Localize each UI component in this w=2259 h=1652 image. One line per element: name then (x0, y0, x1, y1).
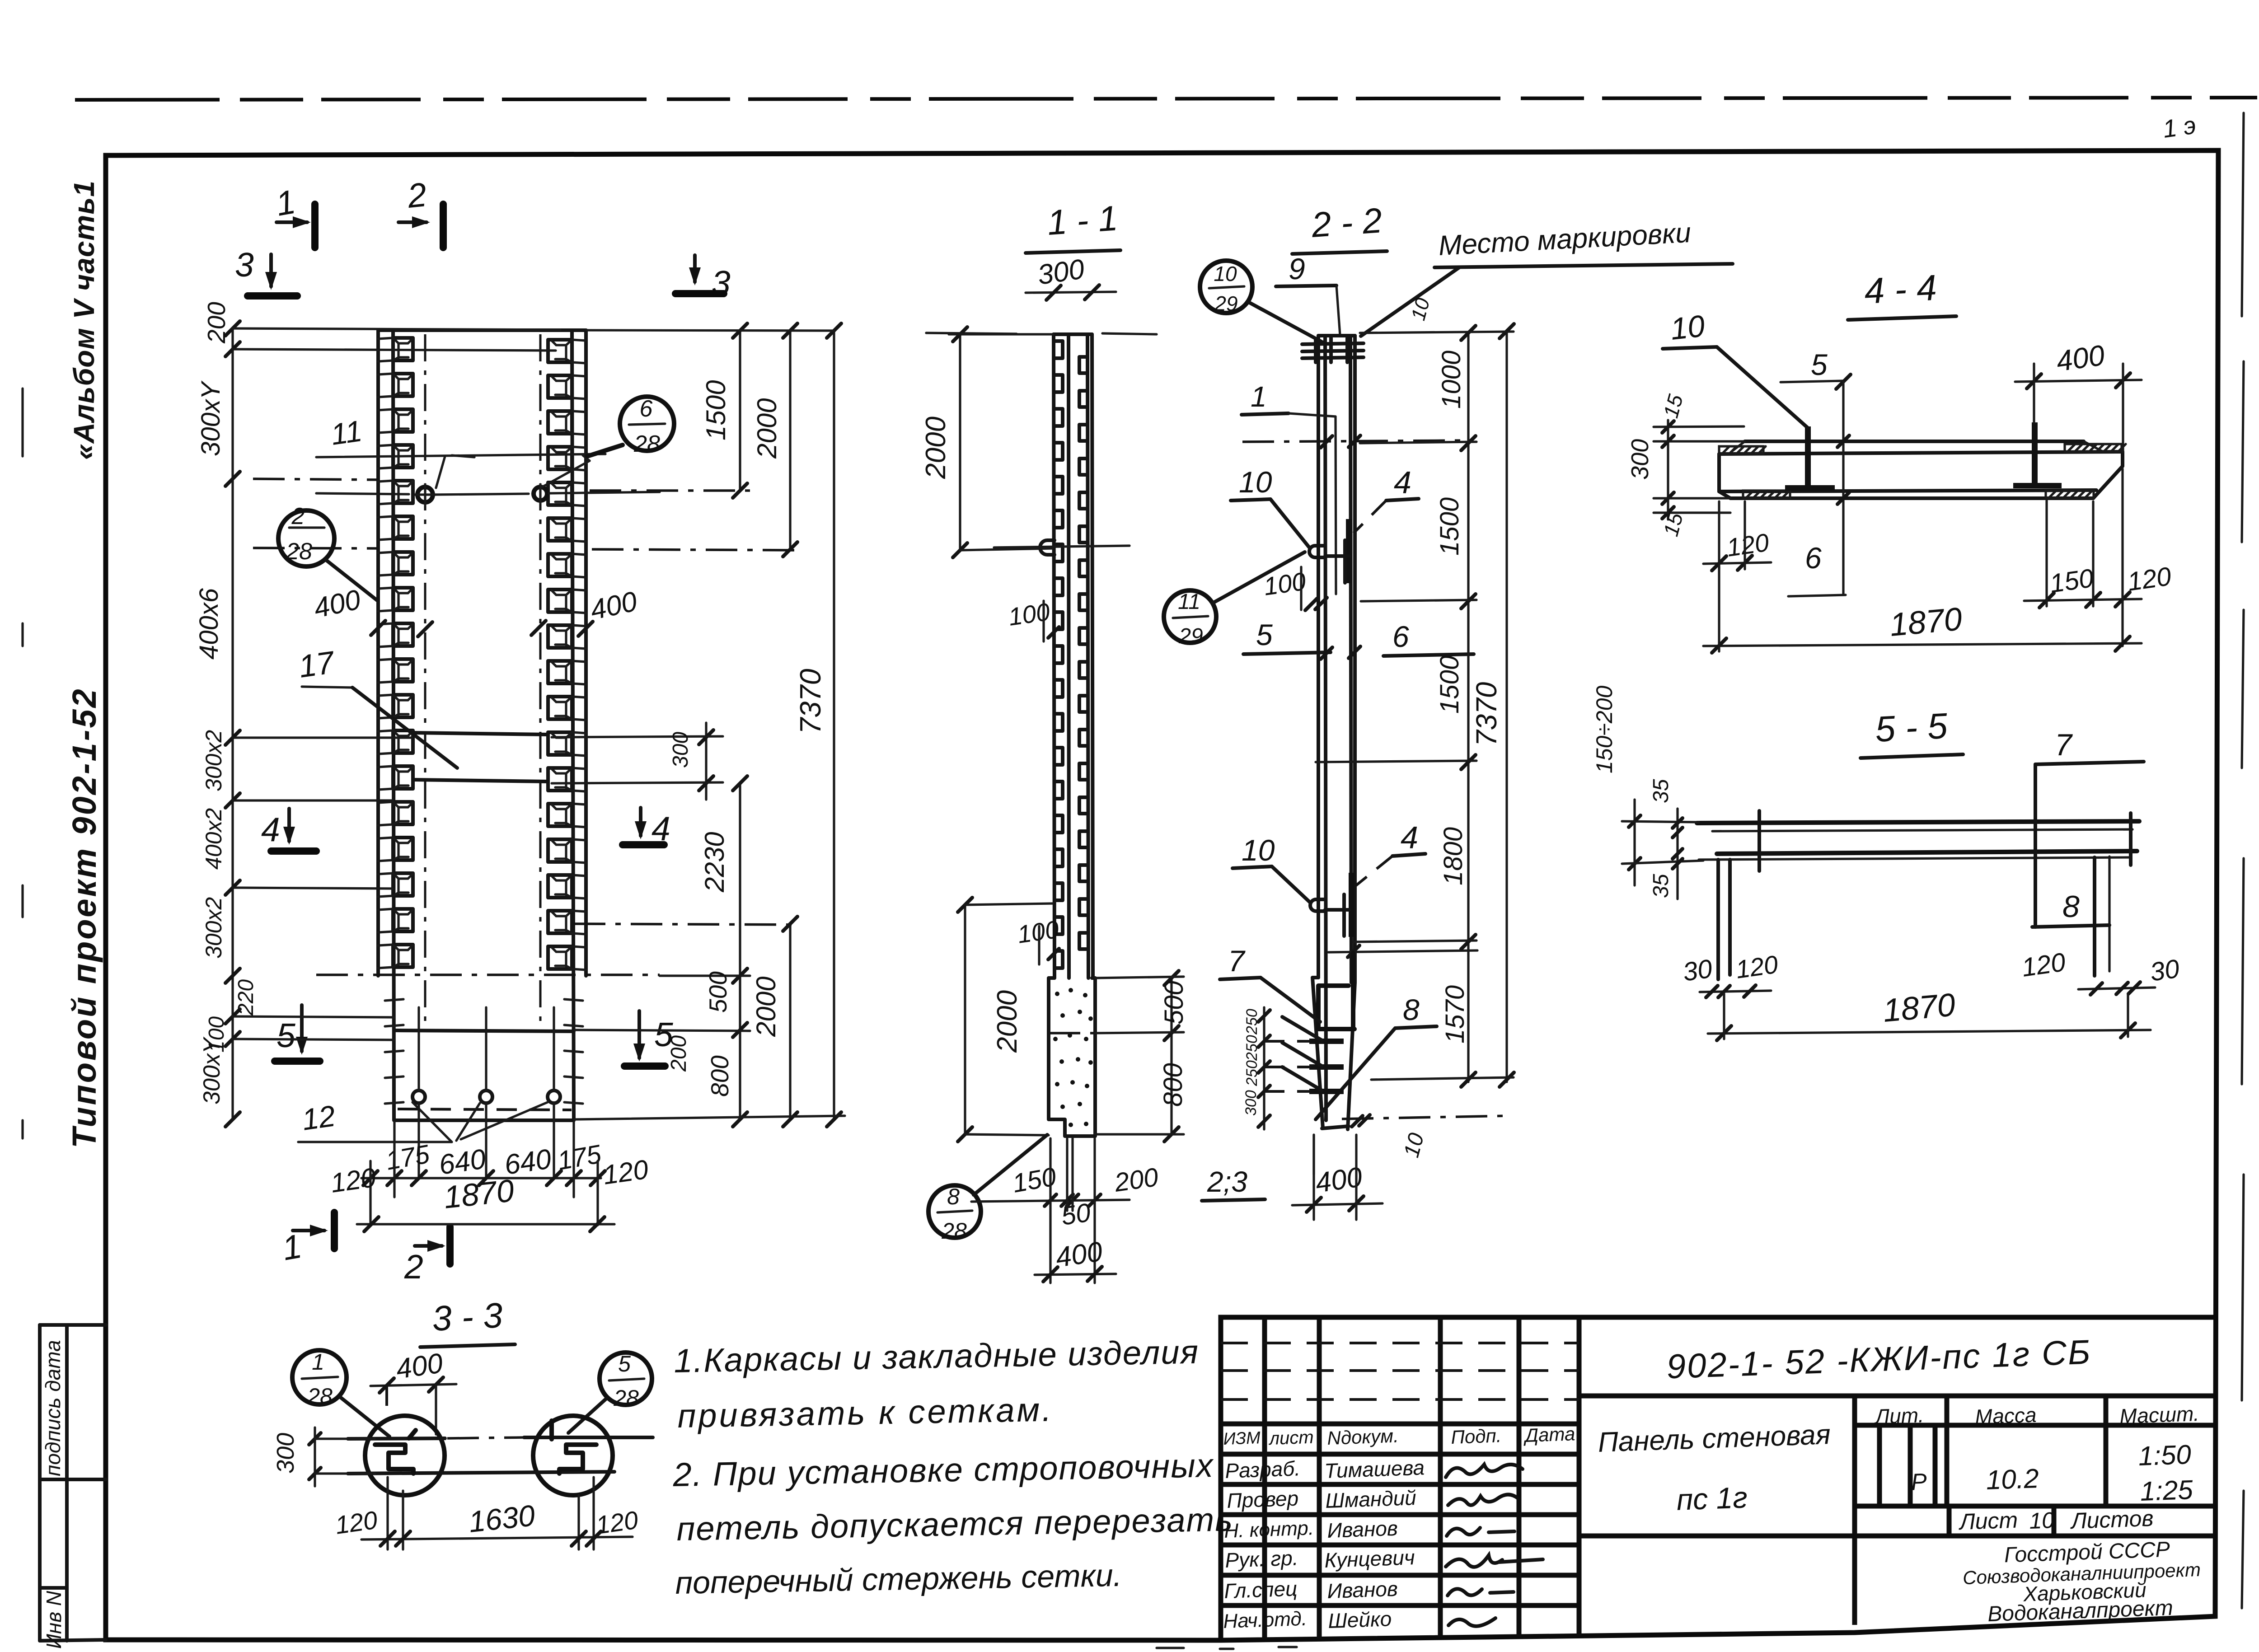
svg-text:640: 640 (437, 1143, 487, 1181)
svg-text:1:25: 1:25 (2140, 1474, 2194, 1507)
svg-text:«Альбом V часть1: «Альбом V часть1 (68, 180, 100, 460)
svg-text:4 - 4: 4 - 4 (1863, 267, 1938, 311)
bent bar 7 in foot (1220, 944, 1354, 1029)
label 2;3 bottom (1202, 1135, 1314, 1201)
svg-text:пс 1г: пс 1г (1676, 1480, 1748, 1516)
bottom dashed line of panel (398, 1109, 572, 1110)
svg-text:1630: 1630 (467, 1498, 537, 1539)
svg-text:2: 2 (291, 503, 305, 529)
right chains of front view (253, 323, 845, 1127)
section 1-1 body (1054, 334, 1093, 978)
callout circle 11/29 (1164, 552, 1305, 648)
svg-text:Инв N: Инв N (42, 1591, 66, 1649)
section 1-1 bottom block (1049, 978, 1095, 1136)
paper edge artifact right (2242, 113, 2244, 1608)
callout circle 8/28 (928, 1135, 1047, 1244)
left margin binding boxes (40, 1325, 106, 1641)
svg-text:11: 11 (1178, 590, 1200, 614)
foot left chain 250-250-250-300 (1242, 1007, 1310, 1129)
svg-text:30: 30 (1681, 954, 1714, 987)
label 12 with leaders (298, 1099, 548, 1142)
svg-text:29: 29 (1178, 624, 1203, 648)
front view edge tick marks lower part (385, 999, 583, 1104)
section 1-1 top extension lines (926, 333, 1157, 334)
section 5-5 bottom chord pair (1699, 851, 2137, 860)
svg-text:35: 35 (1649, 874, 1673, 898)
section 4-4 bottom dims 150-120 right (2024, 469, 2173, 646)
svg-text:10: 10 (2029, 1507, 2055, 1534)
section 4-4 slab body (1719, 441, 2123, 498)
svg-text:120: 120 (2020, 947, 2067, 983)
front view bottom total 1870 (357, 1173, 614, 1231)
svg-text:300: 300 (669, 732, 693, 768)
lifting loop 11 right (534, 484, 547, 503)
svg-text:5: 5 (1256, 618, 1273, 651)
3-3 dim 300 left (272, 1427, 375, 1486)
svg-text:35: 35 (1649, 779, 1673, 803)
svg-text:2000: 2000 (992, 990, 1023, 1053)
svg-text:10.2: 10.2 (1986, 1463, 2039, 1495)
right chain labels of 2-2 (1407, 295, 1503, 1044)
svg-text:250: 250 (1243, 1060, 1261, 1086)
svg-text:8: 8 (947, 1184, 960, 1209)
3-3 detail circle right (533, 1416, 613, 1495)
section mark 3 right (675, 255, 731, 302)
svg-text:3: 3 (235, 246, 254, 284)
svg-text:800: 800 (706, 1055, 734, 1097)
svg-text:300x2: 300x2 (201, 897, 226, 959)
svg-text:400: 400 (394, 1348, 445, 1385)
title block person names col (1324, 1455, 1425, 1633)
svg-text:28: 28 (613, 1385, 639, 1411)
section 4-4 dim 5-6 (1781, 348, 1851, 596)
section 1-1 bottom total 400 (1035, 1236, 1116, 1282)
svg-text:200: 200 (1112, 1162, 1160, 1198)
dashdot level line upper (253, 479, 378, 480)
svg-text:1 э: 1 э (2161, 111, 2198, 143)
svg-text:400x6: 400x6 (194, 588, 224, 660)
section 4-4 left dims 15-300-15 (1626, 392, 1745, 538)
svg-text:200: 200 (667, 1035, 691, 1072)
svg-text:12: 12 (300, 1099, 337, 1136)
svg-text:1:50: 1:50 (2138, 1439, 2192, 1471)
svg-text:8: 8 (2062, 889, 2080, 924)
3-3 key profile left (375, 1430, 416, 1474)
section 2-2 top marking embed (1302, 338, 1364, 362)
svg-text:2000: 2000 (751, 977, 781, 1037)
svg-text:28: 28 (633, 431, 660, 457)
svg-text:5: 5 (1811, 348, 1828, 381)
svg-text:4: 4 (1394, 465, 1411, 500)
section 5-5 top chord pair (1697, 821, 2139, 831)
label 400 right with ticks (531, 586, 640, 636)
front view panel outline (378, 330, 586, 1120)
svg-text:Провер: Провер (1227, 1486, 1299, 1512)
section 1-1 title (1026, 198, 1120, 253)
lifting loop 11 left (415, 484, 436, 505)
right chain of 2-2 (1316, 324, 1514, 1087)
loops centerline (316, 492, 660, 495)
svg-text:7: 7 (1228, 944, 1246, 978)
svg-text:2000: 2000 (752, 398, 782, 459)
svg-text:29: 29 (1214, 292, 1237, 315)
level tick 1800 on 2-2 (1328, 945, 1477, 957)
svg-text:6: 6 (640, 396, 653, 422)
label 400 left with ticks (311, 584, 432, 636)
svg-text:120: 120 (2126, 562, 2173, 597)
svg-text:Типовой проект 902-1-52: Типовой проект 902-1-52 (66, 687, 103, 1148)
title block role names col (1223, 1456, 1314, 1633)
svg-text:1: 1 (312, 1349, 324, 1375)
lit massa masshtab header (1855, 1396, 2215, 1506)
svg-text:1800: 1800 (1439, 827, 1468, 885)
3-3 dim 400 top (370, 1348, 456, 1434)
section 1-1 right 500-800 chain (1095, 971, 1189, 1142)
svg-text:120: 120 (601, 1154, 650, 1190)
section mark 4 right (623, 808, 670, 847)
svg-text:Листов: Листов (2069, 1506, 2154, 1534)
section 5-5 cross bars (1718, 811, 2131, 979)
section mark 2 top (398, 175, 443, 248)
svg-text:6: 6 (1392, 620, 1409, 653)
svg-text:4: 4 (1401, 820, 1418, 855)
svg-text:1500: 1500 (1435, 655, 1464, 714)
svg-text:250: 250 (1243, 1035, 1261, 1061)
section 5-5 title (1861, 706, 1963, 758)
section 4-4 weld plate hatches (1719, 444, 2126, 498)
callout circle 2/28 (278, 503, 378, 601)
svg-text:3 - 3: 3 - 3 (431, 1295, 503, 1338)
svg-text:220: 220 (234, 979, 258, 1016)
svg-text:4: 4 (261, 810, 280, 848)
svg-text:Рук. гр.: Рук. гр. (1225, 1546, 1299, 1572)
label 10 bottom gap (1342, 1115, 1509, 1160)
section mark 1 top (273, 183, 315, 248)
svg-text:1870: 1870 (442, 1173, 516, 1215)
svg-text:17: 17 (296, 644, 337, 684)
svg-text:7: 7 (2055, 728, 2073, 762)
section mark 3 left (235, 246, 297, 296)
title block outer frame (1221, 1317, 2215, 1640)
hook 10 upper (1231, 465, 1349, 583)
svg-text:Подп.: Подп. (1451, 1425, 1502, 1448)
svg-text:привязать к сеткам.: привязать к сеткам. (677, 1390, 1054, 1435)
svg-text:7370: 7370 (794, 669, 827, 734)
hook 10 lower (1233, 833, 1349, 936)
svg-text:1 - 1: 1 - 1 (1046, 198, 1119, 243)
svg-text:1870: 1870 (1881, 987, 1957, 1029)
svg-text:300: 300 (1242, 1090, 1260, 1116)
foot anchor bars (1282, 1017, 1344, 1094)
svg-text:1: 1 (1251, 380, 1267, 413)
svg-text:Гл.спец: Гл.спец (1224, 1577, 1298, 1603)
3-3 panel lines (348, 1437, 653, 1474)
section 4-4 embed T left (1785, 426, 1835, 491)
front view centerline left loop column (424, 334, 426, 1032)
section 5-5 left dims (1592, 686, 1703, 899)
front view centerline right loop column (539, 334, 542, 1032)
svg-text:8: 8 (1403, 993, 1420, 1026)
section 1-1 left edge keys (1055, 341, 1063, 968)
svg-text:400x2: 400x2 (201, 808, 226, 870)
front view beam 17 band (413, 733, 548, 782)
section 4-4 dim 400 top right (2015, 339, 2142, 452)
section 2-2 title (1292, 200, 1387, 254)
label 1 with leader (1242, 380, 1336, 594)
svg-text:28: 28 (307, 1384, 333, 1409)
svg-text:1870: 1870 (1888, 601, 1964, 643)
section 4-4 total 1870 (1703, 567, 2142, 653)
svg-text:1500: 1500 (1435, 497, 1464, 556)
svg-text:Дата: Дата (1523, 1423, 1575, 1446)
svg-text:100: 100 (1007, 598, 1052, 631)
bottom 400 dim of 2-2 (1292, 1135, 1383, 1220)
label 17 with leader (296, 644, 457, 768)
organization cell (1962, 1538, 2201, 1627)
list row (1855, 1506, 2215, 1536)
svg-text:30: 30 (2148, 954, 2181, 987)
section 4-4 embed T right (2013, 422, 2062, 488)
label Mesto markirovki (1361, 217, 1733, 336)
svg-text:2;3: 2;3 (1207, 1165, 1247, 1198)
svg-text:250: 250 (1243, 1009, 1261, 1035)
svg-text:Н. контр.: Н. контр. (1224, 1517, 1314, 1542)
svg-text:300x2: 300x2 (201, 730, 226, 791)
section 5-5 bent bar 7-8 bracket (2032, 728, 2144, 927)
svg-text:28: 28 (941, 1218, 967, 1244)
svg-text:лист: лист (1268, 1427, 1314, 1449)
front view bottom 120 labels (328, 1154, 650, 1198)
svg-text:10: 10 (1239, 465, 1272, 499)
svg-text:2000: 2000 (920, 417, 951, 479)
bottom fold marks (1157, 1647, 1297, 1649)
left dim chain of front view (225, 321, 560, 1127)
svg-text:6: 6 (1805, 541, 1822, 575)
svg-text:5: 5 (618, 1351, 631, 1376)
svg-text:300: 300 (1626, 439, 1654, 480)
svg-text:120: 120 (594, 1505, 640, 1539)
svg-text:Лист: Лист (1958, 1507, 2018, 1535)
left chain labels (194, 302, 258, 1104)
signatures (1446, 1465, 1543, 1626)
svg-text:2 - 2: 2 - 2 (1310, 200, 1383, 245)
embed bar 4 upper (1346, 465, 1419, 583)
svg-text:800: 800 (1158, 1063, 1188, 1107)
embed bar 4 lower (1349, 820, 1425, 937)
svg-text:5 - 5: 5 - 5 (1874, 706, 1949, 749)
title block doc number header (1579, 1333, 2215, 1396)
3-3 detail circle left (365, 1416, 445, 1495)
svg-text:Разраб.: Разраб. (1225, 1456, 1301, 1483)
label 8 with leader (1316, 993, 1437, 1119)
section 1-1 right edge keys (1079, 357, 1086, 949)
svg-text:400: 400 (1054, 1236, 1104, 1273)
svg-text:ИЗМ: ИЗМ (1223, 1428, 1261, 1449)
section 1-1 width dim 300 (1026, 253, 1116, 300)
svg-text:1500: 1500 (701, 380, 731, 440)
svg-text:Кунцевич: Кунцевич (1324, 1545, 1415, 1572)
front view mid line 2281 (395, 1030, 574, 1031)
section 4-4 label 10 (1663, 309, 1807, 427)
title block left table verticals (1265, 1317, 1579, 1640)
svg-text:5: 5 (277, 1016, 295, 1054)
svg-text:9: 9 (1289, 252, 1305, 285)
massa and scale values (1986, 1439, 2194, 1507)
section 5-5 total 1870 (1708, 987, 2151, 1040)
section 3-3 title (420, 1295, 515, 1347)
svg-text:300: 300 (272, 1433, 299, 1474)
svg-text:500: 500 (704, 971, 732, 1013)
section mark 4 left (261, 809, 316, 851)
svg-text:120: 120 (1734, 950, 1780, 983)
front view key-zone end dashdot (316, 973, 660, 976)
svg-text:10: 10 (1242, 833, 1275, 867)
section 1-1 label 100 lower (1016, 915, 1061, 964)
front view keys right column (548, 340, 586, 970)
svg-text:Шмандий: Шмандий (1325, 1486, 1417, 1512)
3-3 bottom chain (333, 1477, 640, 1549)
svg-text:Nдокум.: Nдокум. (1327, 1425, 1399, 1449)
level line 1000 across 2-2 (1242, 435, 1468, 448)
section mark 1 bottom (279, 1212, 334, 1268)
section 1-1 upper 2000 dim (920, 327, 1054, 557)
svg-text:2: 2 (405, 175, 428, 215)
title block header row labels (1223, 1423, 1575, 1449)
section mark 5 left (275, 1005, 320, 1061)
svg-text:10: 10 (1214, 262, 1237, 285)
label 9 (1276, 252, 1340, 335)
small 300 chain at beam (552, 723, 723, 800)
title block revision dashed rows (1221, 1343, 1579, 1399)
front view bottom chain 175-640-640-175 (361, 1122, 605, 1225)
section 2-2 body (1312, 336, 1355, 1129)
svg-text:10: 10 (1669, 309, 1706, 346)
svg-text:Иванов: Иванов (1327, 1577, 1398, 1603)
svg-text:2230: 2230 (699, 832, 730, 893)
title block name cell (1579, 1396, 1855, 1625)
svg-text:120: 120 (333, 1505, 379, 1539)
section 1-1 lower 2000 dim (958, 898, 1053, 1142)
svg-text:Р: Р (1911, 1469, 1927, 1495)
section 1-1 loop hook (994, 540, 1129, 555)
svg-text:11: 11 (329, 414, 364, 451)
3-3 key profile right (552, 1421, 596, 1474)
svg-text:Шейко: Шейко (1328, 1607, 1392, 1633)
section 4-4 bottom dims 120 left (1703, 501, 1771, 571)
svg-text:Тимашева: Тимашева (1324, 1455, 1425, 1483)
svg-text:28: 28 (286, 538, 312, 565)
svg-text:150÷200: 150÷200 (1592, 686, 1617, 773)
svg-text:120: 120 (328, 1162, 377, 1198)
svg-text:1570: 1570 (1440, 985, 1470, 1044)
svg-text:7370: 7370 (1470, 682, 1503, 746)
svg-text:400: 400 (2054, 339, 2107, 378)
svg-text:Нач.отд.: Нач.отд. (1223, 1608, 1308, 1633)
lit sub cells and P (1879, 1425, 1935, 1506)
section 4-4 title (1848, 267, 1956, 320)
right chain labels (667, 380, 827, 1097)
svg-text:300xY: 300xY (199, 1036, 225, 1104)
section 1-1 block dots (1053, 988, 1093, 1127)
section mark 5 right (624, 1011, 673, 1066)
svg-text:1000: 1000 (1437, 351, 1466, 409)
label 11 with leaders (316, 414, 605, 488)
callout 5/28 (568, 1351, 652, 1433)
front view keys left column (378, 338, 413, 968)
section 5-5 bottom dims (1681, 947, 2181, 997)
label 100 at hook (1262, 566, 1327, 610)
labels 5 and 6 (1243, 618, 1474, 659)
svg-text:300xY: 300xY (196, 380, 225, 456)
callout circle 10/29 (1200, 261, 1323, 342)
section 1-1 block mid dash line (1049, 1032, 1095, 1034)
svg-text:подпись дата: подпись дата (41, 1340, 65, 1476)
callout 1/28 (292, 1349, 389, 1437)
title block left table row lines (1221, 1424, 1579, 1605)
section 1-1 label 100 upper (1007, 598, 1059, 641)
svg-text:120: 120 (1725, 528, 1771, 562)
outer dashed paper edge top (75, 98, 2257, 100)
svg-text:Иванов: Иванов (1327, 1516, 1398, 1542)
svg-text:2: 2 (404, 1248, 423, 1286)
svg-text:500: 500 (1159, 981, 1189, 1025)
section mark 2 bottom (404, 1227, 450, 1286)
svg-text:200: 200 (202, 302, 230, 344)
section 1-1 bottom dims 150-50-200 (971, 1138, 1160, 1283)
callout circle 6/28 (587, 396, 674, 457)
anchor loops 12 at bottom (412, 1007, 560, 1177)
paper edge artifact left (21, 388, 23, 1138)
